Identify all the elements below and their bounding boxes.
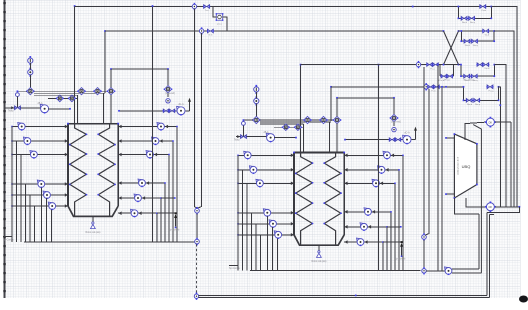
machine2 bundle wires [260,119,337,121]
machine2 dependent source left 2 [249,166,252,169]
machine2 phase output wire row 5 [344,226,387,228]
machine2 source block I [254,87,259,92]
machine2 phase input wire row 3 [238,182,294,184]
machine2 dB-A source [266,133,270,137]
machine1 winding block bottom bracket [68,206,118,216]
machine2 torque reference arrow [401,244,403,256]
machine1 dB-A source [40,104,44,108]
svg-text:Tstep: Tstep [8,110,14,113]
svg-text:[mea-wd]: [mea-wd] [165,93,175,95]
switchgroup2 top bowtie [483,29,489,33]
machine1 left bus stub to border [3,236,12,238]
switchgroup4 top bowtie [487,85,493,89]
probe mid link [423,240,425,268]
mux input stub 1 [446,137,454,139]
machine1 speed bowtie [163,109,168,112]
svg-text:Psi-g: Psi-g [489,90,495,92]
machine1 stator winding block outline [67,124,69,206]
machine2 flux meter diamond e [295,124,302,131]
machine2 row5 extension wire [387,226,401,228]
mux bottom wire [465,213,479,215]
corner ink blot [519,296,528,303]
machine1 row5 extension wire [161,197,175,199]
power sensor blob [445,267,448,270]
mux input stub 2 [446,193,454,195]
machine2 integrator circle [254,98,259,103]
svg-text:Sp-Cont-b: Sp-Cont-b [395,258,406,261]
machine1 dB-A out wire [48,108,70,110]
machine2 flux meter diamond b [320,116,327,123]
switchgroup4 bottom bowtie pair [466,99,472,103]
machine1 integrator circle [28,70,33,75]
machine2 ground symbol [318,251,320,253]
switch group 3 extra top bowtie [477,63,482,66]
machine2 dependent source right 5 [360,223,363,226]
machine2 dB-A out wire [274,137,296,139]
machine2 flux meter diamond d [283,124,290,131]
svg-text:Ps-b: Ps-b [431,91,436,93]
meter drop pair B [486,213,488,296]
machine2 left bus stub to border [229,264,238,266]
double wires to meters [452,268,479,270]
machine2 left bus verticals [237,155,239,270]
switch group 1 exit [491,7,517,207]
psi-a meter block [216,14,222,20]
machine1 dependent source right 5 [134,194,137,197]
machine2 speed feedback stub wire [243,119,252,121]
machine1 phase output wire row 4 [118,182,165,184]
machine2 dependent source left 5 [269,220,272,223]
svg-text:Nw-q: Nw-q [470,22,476,24]
svg-text:Nw-q: Nw-q [475,104,481,106]
DK1 wire right [495,121,511,123]
switchgroup1 loop outline [458,7,491,19]
machine1 phase input wire row 3 [12,154,68,156]
machine2 stator winding block outline [293,152,295,234]
DK2 return path [487,207,520,213]
machine1 speed chain vertical [167,69,169,97]
machine1 winding zigzag R [98,124,115,217]
svg-text:dC-A: dC-A [178,103,184,106]
switchgroup2 bottom bowtie pair [464,39,470,43]
wire B crossing dot [443,30,445,32]
machine1 source block I [28,58,33,63]
machine2 gain row wire [274,126,304,128]
machine1 flux meter diamond main [27,88,34,95]
machine1 dependent source left 6 [48,202,51,205]
machine2 winding zigzag R [324,152,341,245]
machine2 dependent source right 4 [364,208,367,211]
machine1 speed row wire [119,110,177,112]
machine2 winding block bottom bracket [294,235,344,245]
machine1 neutral stem wire [92,216,94,221]
machine2 speed row wire [345,139,403,141]
machine2 dependent source left 6 [274,231,277,234]
machine1 winding zigzag L [70,124,87,217]
machine1 phase output wire row 2 [118,140,173,142]
DK2 meter [486,203,494,211]
svg-text:dB-A: dB-A [37,102,43,105]
machine1 torque input bowtie [15,106,21,110]
psi-a left wire [213,7,216,18]
wire B bowtie Tr-b [208,29,214,33]
meter drop pair A [478,214,480,269]
machine1 speed flux diamond [164,86,171,93]
machine2 torque input wire [236,136,241,138]
mux trapezoid UBQ [454,134,477,198]
wire C run to crossing [438,64,458,66]
machine2 phase output wire row 1 [344,154,403,156]
machine1 drop wires to block [74,91,76,123]
machine1 dependent source left 4 [37,180,40,183]
probe junction link [196,214,198,239]
switch group 3 exit [494,65,506,207]
machine1 dependent source right 1 [157,123,160,126]
wire C riser from machine2 [300,65,302,120]
wire D probe circle [424,85,428,89]
machine2 speed tap corner wire [337,97,394,99]
machine1 phase output wire row 5 [118,197,161,199]
machine2 dependent source right 3 [372,179,375,182]
mux bottom path [454,198,465,214]
switch group 2 feed [458,30,494,32]
mux feeder vertical 1 [437,65,439,271]
svg-text:Tstep: Tstep [234,138,240,141]
machine2 left bus blob drops [266,216,268,271]
wire D bowtie pair Ps-b [428,85,433,88]
switch group 4 exit [498,87,500,207]
machine2 speed bowtie [389,138,394,141]
switch group 1 feed [458,6,491,8]
sheet left border ruler [4,0,6,298]
machine1 flux meter diamond a [78,88,85,95]
machine1 bottom bus wire [24,241,195,243]
svg-text:DK: DK [489,121,493,124]
machine2 phase output wire row 3 [344,182,395,184]
probe drop D vertical [425,89,429,235]
machine2 phase output wire row 4 [344,211,391,213]
wire B riser from machine1 [104,31,106,93]
machine2 dependent source right 1 [383,151,386,154]
svg-text:Nw-d: Nw-d [465,45,471,47]
switchgroup3 bottom bowtie pair [464,74,470,78]
machine1 dC-A exit arrow [185,110,189,112]
machine2 phase input wire row 1 [238,154,294,156]
machine1 speed feedback stub wire [17,90,26,92]
machine2 phase input wire row 5 [238,223,294,225]
DK1 branch slant [473,125,481,273]
wire C bypass branch with switch pair [439,65,441,77]
wire A probe drop [194,9,196,209]
svg-text:dC-A: dC-A [404,132,410,135]
svg-text:dB-A: dB-A [263,131,269,134]
machine1 speed tap corner wire [111,68,168,70]
machine2 bottom bus wire [250,270,421,272]
svg-text:Rotor-wd-psip: Rotor-wd-psip [311,260,327,263]
machine1 right bus verticals [176,127,178,242]
machine1 phase output wire row 3 [118,154,169,156]
DK1 meter [486,118,494,126]
wire C bowtie pair Ps-a [427,63,432,66]
DK2 wire right [495,206,520,208]
bus end circle machine1 [195,239,200,244]
wire C run [301,64,417,66]
probe junction circle machine1 [195,208,200,213]
wire B probe circle [199,29,203,33]
wire B top run [105,30,199,32]
machine2 dC-A exit arrow [411,139,415,141]
machine2 dependent source left 4 [263,209,266,212]
svg-text:Sp-Cont-a: Sp-Cont-a [3,238,14,241]
machine1 phase input wire row 4 [12,183,68,185]
machine1 torque row extension [157,212,176,214]
machine2 dependent source right 2 [378,166,381,169]
machine1 phase input wire row 6 [12,205,68,207]
bottom feedback bus pair [199,294,487,296]
machine1 phase input wire row 5 [12,194,68,196]
bottom node circle right [422,269,426,273]
svg-text:Tw-b: Tw-b [484,35,490,37]
machine1 dependent source right 6 [131,209,134,212]
machine2 dependent source right 6 [357,238,360,241]
machine2 speed chain vertical [393,98,395,126]
machine2 torque row extension [383,241,402,243]
switchgroup4 loop outline [464,87,499,101]
machine1 ground symbol [92,222,94,224]
svg-text:DK: DK [489,206,493,209]
switch group 3 feed [459,64,462,66]
svg-text:Rotor-wd-psip: Rotor-wd-psip [85,231,101,234]
machine2 right bus verticals [402,155,404,270]
machine1 flux meter diamond c [107,88,114,95]
svg-text:Nw-d: Nw-d [467,104,473,106]
machine2 torque input bowtie [241,135,247,139]
machine2 dC-A source [403,135,407,139]
psi-a right wire [223,17,227,31]
wire C probe circle [416,62,420,66]
machine1 flux meter diamond e [69,95,76,102]
machine1 bundle wires [34,90,111,92]
machine1 dC-A source [177,106,181,110]
machine2 speed circle [392,127,396,131]
svg-text:[mea-wd]: [mea-wd] [391,122,401,124]
machine1 phase output wire row 1 [118,126,177,128]
machine2 flux meter diamond c [333,116,340,123]
machine1 dependent source left 1 [18,123,21,126]
machine1 speed bowtie 2 [169,109,174,112]
machine1 flux meter diamond b [94,88,101,95]
DK1 drop vertical [510,122,512,207]
svg-text:psi-a: psi-a [217,23,223,25]
mux feeder vertical 2 [441,87,443,271]
svg-text:rotating frame of ref: rotating frame of ref [456,157,459,176]
machine1 gain row wire [48,97,78,99]
wire A top run [75,6,193,8]
wire A bowtie Tr-a [204,5,210,9]
wire D run [331,86,424,88]
switchgroup2 loop outline [461,31,494,41]
svg-text:Nw-d: Nw-d [462,22,468,24]
machine2 phase output wire row 6 [344,241,383,243]
machine1 phase output wire row 6 [118,212,157,214]
svg-text:Sp-Cont-a: Sp-Cont-a [229,267,240,270]
machine2 phase input wire row 2 [238,169,294,171]
machine1 left bus blob drops [40,187,42,242]
svg-text:Vw-b: Vw-b [484,68,490,70]
machine2 drop wires to block [300,120,302,152]
svg-text:dPsi-b: dPsi-b [438,80,445,82]
machine2 speed bowtie 2 [395,138,400,141]
svg-text:Ps-a: Ps-a [430,68,435,70]
wire A drop to machine1 right bus [152,6,154,242]
machine2 phase output wire row 2 [344,169,399,171]
svg-text:Nw-q: Nw-q [473,45,479,47]
wire A junction dot [412,6,414,8]
machine1 dependent source right 4 [138,179,141,182]
machine2 winding zigzag L [296,152,313,245]
switch group 2 exit [494,31,514,207]
switchgroup3 top bowtie [483,63,489,67]
machine2 phase input wire row 6 [238,234,294,236]
probe circle mid [422,235,427,240]
switchgroup1 top bowtie [480,5,486,9]
svg-text:Sp-Cont-b: Sp-Cont-b [169,229,180,232]
bottom node circle [194,294,198,298]
machine1 phase input wire row 2 [12,140,68,142]
wire B probe drop [198,33,202,208]
machine1 left bus verticals [11,127,13,242]
machine2 flux meter diamond a [304,116,311,123]
switchgroup3 loop outline [461,65,494,77]
machine2 chain wire [255,92,257,98]
machine1 dependent source left 2 [23,137,26,140]
machine2 phase input wire row 4 [238,212,294,214]
machine1 dependent source left 5 [43,191,46,194]
machine1 dependent source right 3 [146,151,149,154]
machine2 neutral stem wire [318,245,320,250]
wire A probe circle [192,4,196,8]
svg-text:Nw-d Nw-q: Nw-d Nw-q [464,79,476,81]
bottom right bus wire [426,270,445,272]
transposition crossing X [444,31,459,65]
wire D run2 [445,86,447,88]
machine1 speed circle [166,99,170,103]
machine1 dependent source right 2 [152,137,155,140]
machine2 dependent source left 3 [256,179,259,182]
switchgroup1 bottom bowtie pair [461,17,467,21]
svg-text:dPsi-b: dPsi-b [444,80,451,82]
machine1 flux meter diamond d [57,95,64,102]
machine1 phase input wire row 1 [12,126,68,128]
machine1 torque reference arrow [175,215,177,227]
machine1 chain wire [29,63,31,69]
machine2 flux meter diamond main [253,116,260,123]
bottom dashed link [196,244,198,294]
DK2 wire left [466,198,486,207]
machine2 dependent source left 1 [244,151,247,154]
svg-text:UBQ: UBQ [462,164,471,169]
wire C drop to machine2 right bus [378,65,380,271]
wire D riser from machine2 [330,87,332,121]
machine1 torque input wire [5,107,15,109]
machine1 dependent source left 3 [30,151,33,154]
DK1 wire left [465,122,486,140]
machine2 speed flux diamond [390,114,397,121]
wire A riser from machine1 [74,6,76,91]
probe drop C vertical [423,67,425,234]
